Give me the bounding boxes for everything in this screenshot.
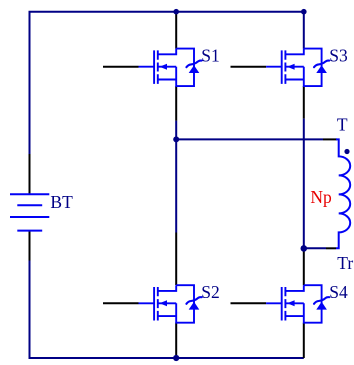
svg-text:BT: BT [50,192,73,212]
svg-text:Tr: Tr [337,253,353,273]
svg-text:S1: S1 [201,45,219,65]
svg-text:Np: Np [310,187,332,207]
svg-text:T: T [337,114,348,134]
svg-text:S3: S3 [329,45,348,65]
svg-text:S4: S4 [329,282,348,302]
svg-text:S2: S2 [201,282,219,302]
